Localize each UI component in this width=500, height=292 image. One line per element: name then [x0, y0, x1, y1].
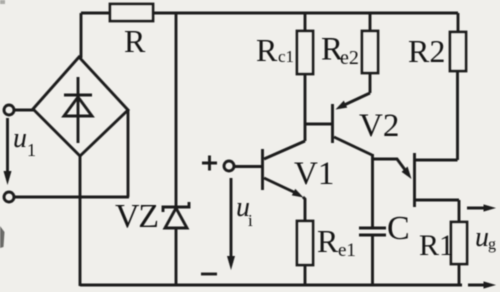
svg-text:R2: R2: [408, 33, 445, 69]
resistor Rc1: [304, 13, 307, 31]
resistor R1: [458, 200, 461, 222]
output arrow bottom: [468, 284, 485, 287]
wire V2 collector down through C: [371, 154, 374, 285]
wire terminal to bridge left: [14, 109, 34, 112]
diode inside bridge: [64, 77, 92, 143]
svg-text:u: u: [13, 123, 27, 154]
resistor Re1: [297, 221, 313, 265]
terminal input top: [4, 105, 14, 115]
wire bridge right vertex down: [127, 110, 130, 197]
svg-text:1: 1: [27, 140, 36, 160]
arrow ui: [230, 178, 233, 261]
svg-text:R: R: [317, 223, 339, 259]
svg-text:R: R: [256, 32, 278, 68]
minus sign: [201, 273, 217, 276]
wire top rail: [81, 12, 458, 15]
svg-text:V2: V2: [359, 108, 399, 144]
svg-text:C: C: [387, 210, 410, 247]
plus sign: [202, 156, 217, 171]
svg-text:R1: R1: [419, 229, 454, 262]
wire VZ branch vertical: [175, 13, 178, 285]
edge smudge: [0, 226, 5, 248]
svg-text:i: i: [248, 211, 253, 230]
svg-text:c1: c1: [278, 47, 294, 66]
terminal input bottom: [4, 192, 14, 202]
svg-text:g: g: [488, 236, 496, 253]
capacitor C: [359, 228, 386, 235]
zener diode VZ: [163, 202, 189, 228]
resistor R: [110, 4, 153, 21]
arrow u1: [6, 118, 9, 176]
svg-text:u: u: [475, 222, 489, 253]
wire bottom rail: [80, 284, 462, 287]
wire V2 base: [304, 123, 332, 126]
bridge rectifier diamond: [33, 57, 128, 156]
wire bridge bottom vertex down: [79, 156, 82, 286]
svg-text:e2: e2: [340, 47, 359, 69]
svg-text:e1: e1: [338, 240, 356, 261]
svg-text:VZ: VZ: [115, 198, 159, 235]
svg-text:V1: V1: [294, 156, 334, 192]
wire V1 emitter to Re1: [303, 197, 305, 221]
svg-text:R: R: [124, 23, 146, 59]
wire bottom terminal to right vertex line: [14, 196, 129, 199]
transistor V2: [331, 104, 334, 143]
resistor R2: [457, 13, 460, 32]
wire plus terminal to V1 base: [234, 165, 262, 168]
resistor Re2: [369, 13, 372, 31]
wire left vertical to bridge top: [80, 13, 83, 58]
transistor V1: [261, 149, 264, 190]
transistor V3 pass: [413, 153, 416, 207]
terminal plus: [224, 161, 234, 171]
output arrow top: [467, 207, 485, 210]
